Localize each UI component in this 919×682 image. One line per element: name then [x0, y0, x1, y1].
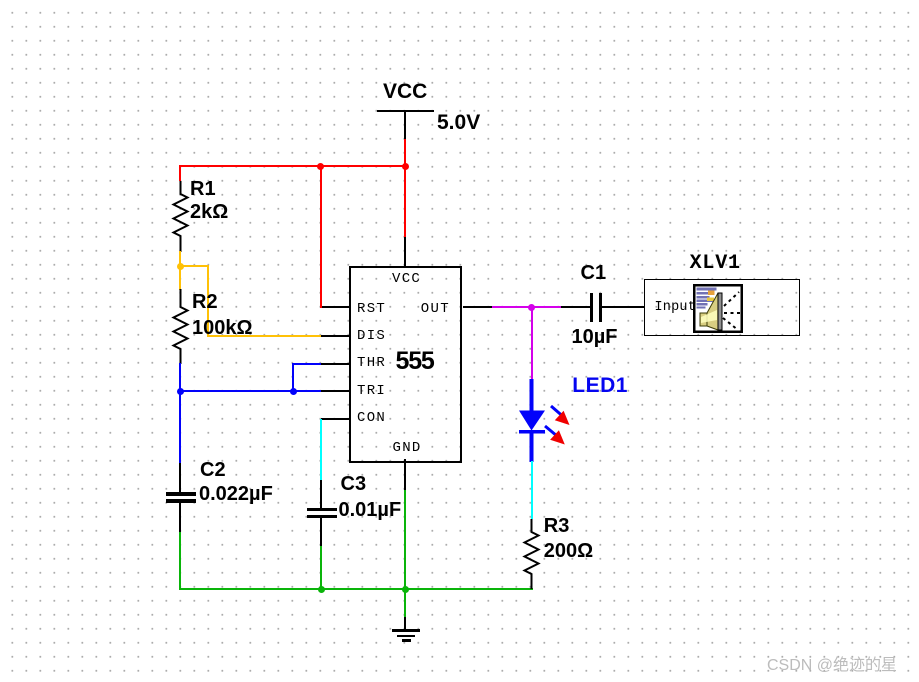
wire magenta OUT horizontal	[492, 306, 562, 308]
capacitor C1	[561, 306, 590, 308]
wire yellow horizontal to DIS	[207, 335, 321, 337]
pin stub THR	[321, 363, 349, 365]
wire VCC vertical red	[404, 139, 406, 237]
wire yellow horizontal branch	[179, 265, 209, 267]
wire blue R2 bottom down	[179, 363, 181, 463]
pin label GND	[393, 441, 422, 455]
label C3	[341, 474, 367, 494]
label XLV1	[690, 254, 741, 274]
label LED1	[572, 375, 628, 396]
LED arrow 2 shaft	[545, 426, 557, 436]
wire blue THR horizontal	[292, 363, 321, 365]
junction magenta OUT	[528, 304, 535, 311]
wire green bottom rail	[179, 588, 533, 590]
junction green GND	[402, 586, 409, 593]
junction blue THR/TRI	[290, 388, 297, 395]
label R3	[544, 516, 570, 536]
wire green to ground symbol	[404, 588, 406, 618]
ground	[404, 617, 406, 630]
wire cyan LED to R3	[531, 461, 533, 519]
pin label DIS	[357, 329, 386, 343]
pin stub GND vertical	[404, 459, 406, 491]
pin label THR	[357, 356, 386, 370]
resistor R1	[171, 181, 190, 252]
label 555	[396, 349, 434, 374]
pin stub DIS	[321, 335, 349, 337]
wire yellow R1 bottom to node	[179, 251, 181, 290]
pin label TRI	[357, 384, 386, 398]
wire cyan CON to C3	[320, 419, 322, 480]
value R1 2k ohm	[190, 202, 228, 222]
wire 555 VCC pin stub black	[404, 237, 406, 266]
junction red at VCC drop	[402, 163, 409, 170]
LED triangle	[519, 411, 545, 431]
wire magenta vertical to LED	[531, 306, 533, 379]
wire green GND pin to rail	[404, 490, 406, 589]
instrument speaker icon	[693, 284, 743, 333]
capacitor C2	[179, 463, 181, 492]
wire blue horizontal TRI rail	[179, 390, 321, 392]
value C2 0.022uF	[199, 484, 273, 504]
icon pixel art	[697, 288, 717, 309]
junction blue left	[177, 388, 184, 395]
label C1	[581, 263, 607, 283]
LED arrow 1 head	[555, 411, 570, 425]
capacitor C3	[320, 480, 322, 508]
wire red vertical to RST	[320, 165, 322, 308]
label R1	[190, 179, 216, 199]
junction yellow node R1/R2	[177, 263, 184, 270]
value R3 200 ohm	[544, 541, 593, 561]
LED arrow 2 head	[550, 430, 565, 444]
power VCC label	[383, 81, 427, 102]
wire red vertical to R1	[179, 165, 181, 181]
LED cathode lead blue	[530, 433, 534, 462]
watermark	[767, 651, 897, 675]
pin label RST	[357, 302, 386, 316]
wire green C3 to rail	[320, 546, 322, 589]
value C3 0.01uF	[339, 500, 402, 520]
label C2	[200, 460, 226, 480]
pin stub RST	[322, 306, 349, 308]
LED arrow 1 shaft	[551, 406, 563, 416]
instrument XLV1 box	[644, 279, 800, 336]
junction red at RST branch	[317, 163, 324, 170]
wire red horizontal top rail	[179, 165, 407, 167]
pin stub CON	[321, 418, 349, 420]
IC 555 box U1	[349, 266, 462, 463]
junction green C3	[318, 586, 325, 593]
resistor R2	[171, 289, 190, 364]
value C1 10uF	[572, 327, 618, 347]
pin label VCC	[392, 272, 421, 286]
LED LED1	[505, 375, 580, 465]
icon sound rays	[723, 292, 740, 330]
wire green C2 to rail	[179, 532, 181, 589]
wire VCC stub black	[404, 110, 406, 139]
wire blue THR vertical	[292, 363, 294, 392]
pin label Input	[655, 301, 697, 315]
power VCC symbol	[377, 110, 434, 112]
value R2 100k ohm	[192, 318, 253, 338]
pin label CON	[357, 411, 386, 425]
pin stub OUT	[463, 306, 492, 308]
pin stub TRI	[321, 390, 349, 392]
wire yellow vertical branch down	[207, 265, 209, 337]
icon speaker cone	[700, 293, 722, 330]
pin label OUT	[421, 302, 450, 316]
label R2	[192, 292, 218, 312]
LED anode lead blue	[530, 379, 534, 411]
resistor R3	[522, 519, 541, 589]
power VCC value 5.0V	[437, 112, 480, 133]
LED cathode bar	[519, 430, 545, 434]
